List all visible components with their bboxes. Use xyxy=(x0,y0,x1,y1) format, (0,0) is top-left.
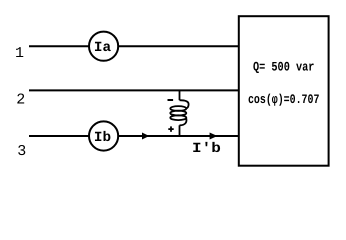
svg-text:2: 2 xyxy=(16,92,25,109)
ammeter Ia xyxy=(89,32,118,61)
svg-text:Q= 500 var: Q= 500 var xyxy=(253,60,315,75)
wire line1 xyxy=(29,45,239,47)
load box xyxy=(239,16,329,166)
wire line3 xyxy=(29,135,239,137)
wire line2 xyxy=(29,89,239,91)
svg-text:I'b: I'b xyxy=(192,141,221,157)
svg-text:1: 1 xyxy=(15,45,24,62)
svg-text:Ib: Ib xyxy=(94,130,111,146)
polarity plus xyxy=(168,126,173,131)
svg-text:Ia: Ia xyxy=(94,40,112,56)
polarity minus xyxy=(168,99,174,101)
svg-text:cos(φ)=0.707: cos(φ)=0.707 xyxy=(248,92,320,107)
inductor L (between line2 and line3) xyxy=(170,90,188,136)
current arrow 2 on line3 xyxy=(210,133,218,140)
svg-text:3: 3 xyxy=(17,143,26,160)
current arrow 1 on line3 xyxy=(142,133,149,140)
ammeter Ib xyxy=(89,121,118,150)
